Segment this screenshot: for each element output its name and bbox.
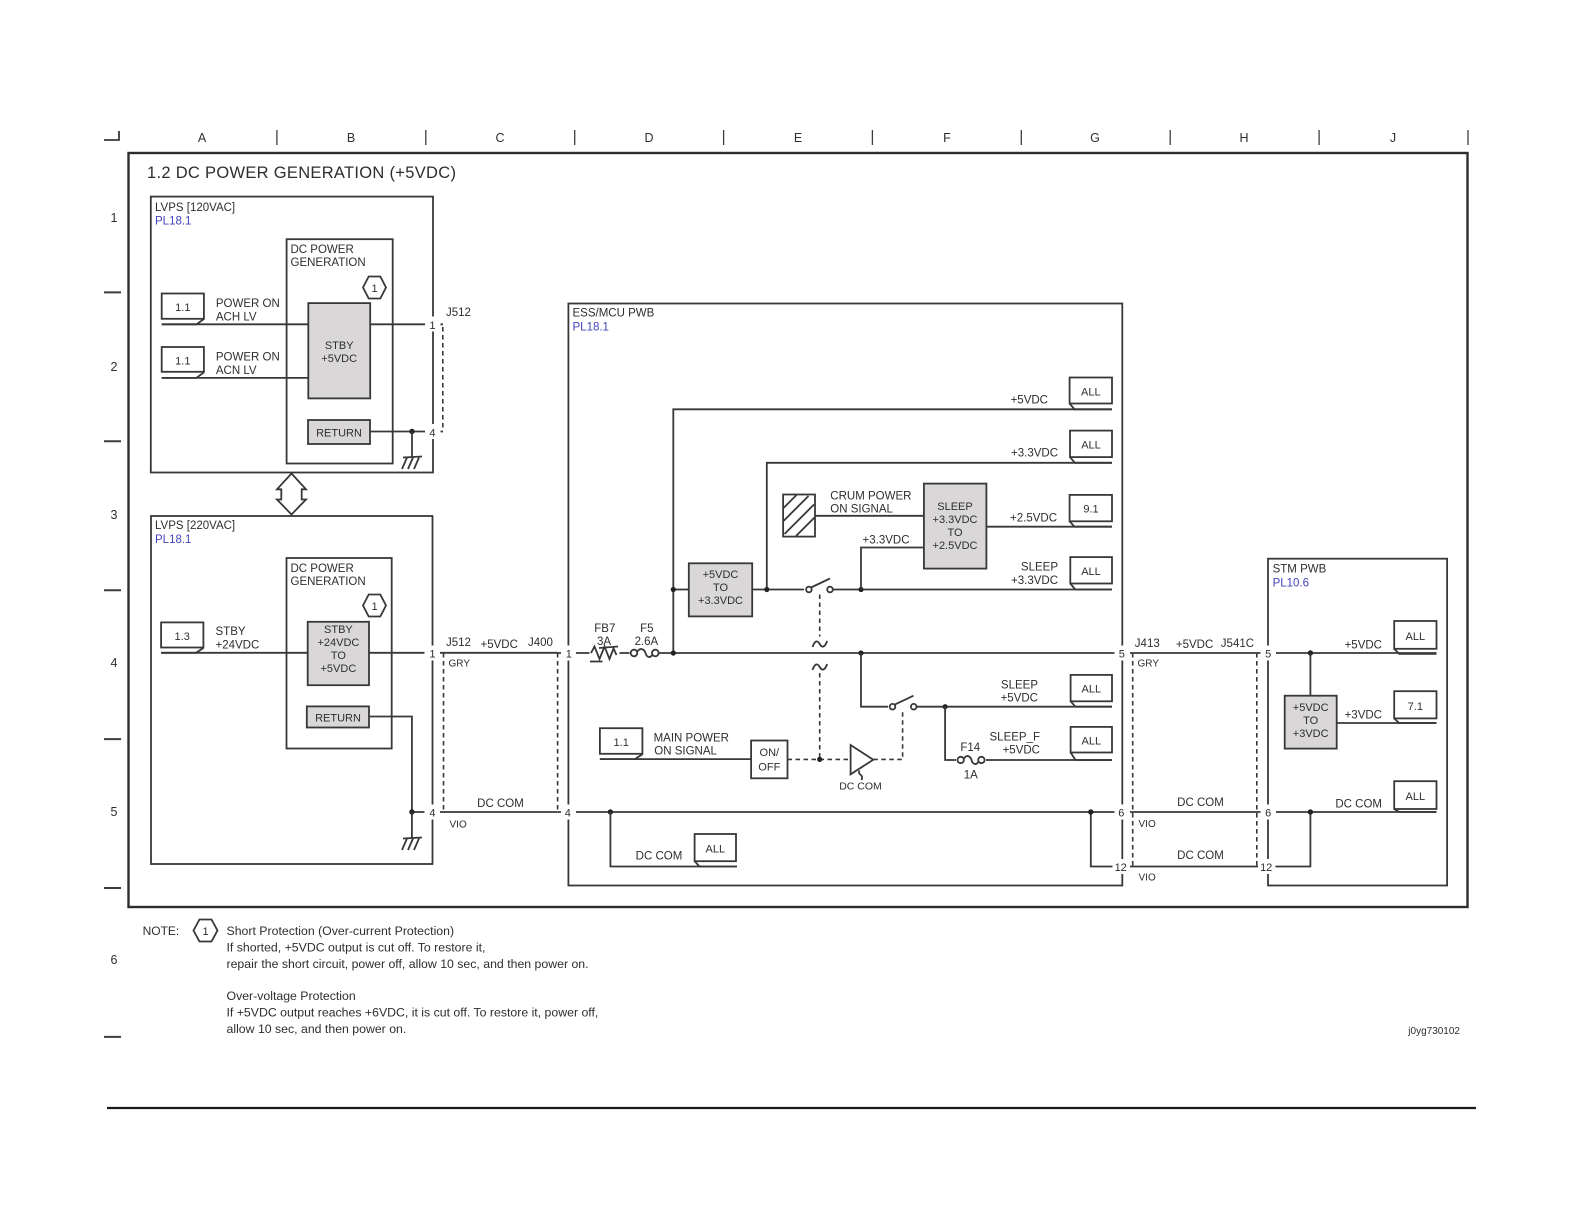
svg-text:SLEEP: SLEEP (1021, 562, 1058, 574)
wire DC COM rail (J400 pin4 to STM pin6 tag) (558, 811, 1437, 813)
svg-text:PL18.1: PL18.1 (155, 534, 191, 546)
svg-text:12: 12 (1115, 862, 1127, 874)
svg-text:ALL: ALL (1406, 791, 1426, 803)
tag ALL (+3.3VDC) (1070, 431, 1112, 463)
junction node (sleep3.3/feed) (858, 587, 863, 592)
svg-text:+5VDC: +5VDC (1011, 395, 1048, 407)
svg-text:VIO: VIO (1139, 873, 1156, 884)
wire CRUM POWER ON SIGNAL (815, 515, 924, 517)
wire +3VDC to 7.1 tag (1337, 722, 1437, 724)
svg-text:1: 1 (429, 320, 435, 332)
junction node (+5 rail tap) (671, 587, 676, 592)
svg-text:6: 6 (1265, 808, 1271, 820)
label MAIN POWER ON SIGNAL (654, 733, 729, 758)
svg-text:ALL: ALL (706, 844, 726, 856)
svg-text:DC COM: DC COM (1177, 797, 1224, 809)
label FB7 3A (594, 623, 615, 648)
svg-text:1.3: 1.3 (175, 631, 190, 643)
svg-text:VIO: VIO (450, 820, 467, 831)
svg-text:6: 6 (1118, 808, 1124, 820)
CRUM hatched box (783, 495, 815, 537)
junction node (DC COM rail / ALL tag) (608, 809, 613, 814)
svg-text:ALL: ALL (1082, 684, 1102, 696)
note hexagon 1 (220VAC) (363, 595, 386, 617)
svg-text:DC COM: DC COM (839, 781, 882, 793)
svg-text:G: G (1090, 131, 1100, 145)
pin 4 gap+label (LVPS220 edge) (425, 805, 441, 820)
junction node (+5 rail to FB7 branch) (671, 650, 676, 655)
junction node at return/ground (409, 429, 414, 434)
wire +5VDC output to J512 pin 1 (220) (369, 652, 444, 654)
net label SLEEP_F +5VDC (990, 732, 1041, 757)
LVPS [220VAC] board box (151, 516, 433, 864)
svg-text:4: 4 (429, 808, 435, 820)
svg-text:TO: TO (331, 650, 347, 662)
svg-text:DC POWER: DC POWER (291, 244, 354, 256)
svg-text:4: 4 (565, 808, 571, 820)
svg-text:DC COM: DC COM (477, 798, 524, 810)
junction node (rail to sleep5 branch) (858, 650, 863, 655)
svg-text:1: 1 (566, 649, 572, 661)
switch SW2 (sleep 5V) (888, 696, 917, 713)
svg-text:D: D (644, 131, 653, 145)
svg-text:GENERATION: GENERATION (291, 576, 366, 588)
harness J413-J541C dashed cable box (1133, 653, 1257, 867)
svg-text:GENERATION: GENERATION (291, 257, 366, 269)
converter +5VDC TO +3.3VDC box (689, 563, 752, 616)
drawing frame border (129, 153, 1468, 907)
note hexagon 1 (legend) (194, 920, 218, 942)
svg-text:5: 5 (1265, 649, 1271, 661)
svg-text:LVPS [220VAC]: LVPS [220VAC] (155, 520, 235, 532)
dashed control line SW1 with crossing tildes (813, 595, 828, 760)
ON/OFF switch box (751, 741, 787, 779)
wire RETURN to J512 pin 4 (370, 431, 443, 433)
label POWER ON ACH LV (216, 298, 280, 323)
svg-text:SLEEP: SLEEP (937, 501, 972, 513)
svg-text:6: 6 (111, 953, 118, 967)
tag ALL (+5VDC) (1070, 378, 1112, 410)
STBY +5VDC converter box (308, 303, 370, 398)
svg-text:allow 10 sec, and then power o: allow 10 sec, and then power on. (227, 1022, 407, 1036)
svg-text:ON SIGNAL: ON SIGNAL (654, 746, 717, 758)
wire ACN LV into STBY (162, 377, 309, 379)
svg-text:ON/: ON/ (760, 747, 781, 759)
wire ACH LV into STBY (162, 323, 309, 325)
ruler corner mark (104, 131, 119, 140)
svg-text:+3.3VDC: +3.3VDC (863, 535, 910, 547)
svg-text:1.1: 1.1 (614, 737, 629, 749)
svg-text:+3.3VDC: +3.3VDC (1011, 575, 1058, 587)
junction node (STM DC COM) (1308, 809, 1313, 814)
label F5 2.6A (635, 623, 659, 648)
ruler row numbers (111, 211, 118, 967)
svg-text:TO: TO (713, 582, 729, 594)
svg-text:E: E (794, 131, 802, 145)
wire +5VDC through harness C (444, 652, 558, 654)
svg-text:1.1: 1.1 (175, 356, 190, 368)
svg-text:2.6A: 2.6A (635, 636, 659, 648)
svg-text:If +5VDC output reaches +6VDC,: If +5VDC output reaches +6VDC, it is cut… (227, 1006, 599, 1020)
svg-text:9.1: 9.1 (1083, 504, 1098, 516)
svg-text:Over-voltage Protection: Over-voltage Protection (227, 989, 356, 1003)
connector J512 (120VAC) dashed (442, 327, 444, 429)
svg-text:NOTE:: NOTE: (143, 924, 180, 938)
wire +5VDC rail (J400 pin1 to J541C, into STM) (558, 652, 1437, 654)
svg-text:POWER ON: POWER ON (216, 352, 280, 364)
note hexagon 1 (120VAC) (363, 277, 386, 299)
tag 1.3 STBY +24VDC (161, 622, 203, 652)
ruler column separators (277, 130, 1468, 145)
svg-text:J541C: J541C (1221, 638, 1254, 650)
wire MAIN POWER ON SIGNAL to ON/OFF (600, 758, 751, 760)
junction node (+3.3 always-on tap) (764, 587, 769, 592)
svg-text:12: 12 (1260, 862, 1272, 874)
svg-text:3A: 3A (597, 636, 611, 648)
svg-text:ALL: ALL (1081, 440, 1101, 452)
svg-text:FB7: FB7 (594, 623, 615, 635)
tag 1.1 MAIN POWER ON SIGNAL (600, 728, 643, 759)
STM PWB board box (1268, 559, 1447, 886)
wire STBY +24VDC into converter (161, 652, 308, 654)
svg-text:ON SIGNAL: ON SIGNAL (830, 504, 893, 516)
svg-text:1: 1 (111, 211, 118, 225)
svg-text:F5: F5 (640, 623, 653, 635)
svg-text:MAIN POWER: MAIN POWER (654, 733, 729, 745)
svg-text:OFF: OFF (758, 762, 780, 774)
svg-text:4: 4 (111, 656, 118, 670)
svg-text:+3.3VDC: +3.3VDC (933, 514, 978, 526)
svg-text:If shorted, +5VDC output is cu: If shorted, +5VDC output is cut off. To … (227, 941, 486, 955)
svg-text:DC COM: DC COM (636, 851, 683, 863)
svg-text:5: 5 (1119, 649, 1125, 661)
LVPS [120VAC] board box (151, 197, 433, 473)
svg-text:+5VDC: +5VDC (1003, 745, 1040, 757)
wire STBY +5VDC output to J512 pin 1 (370, 323, 443, 325)
DC POWER GENERATION box (220VAC) (287, 558, 392, 749)
svg-text:+3.3VDC: +3.3VDC (698, 595, 743, 607)
ground (120VAC return) (402, 432, 422, 470)
svg-text:+3VDC: +3VDC (1345, 710, 1382, 722)
svg-text:SLEEP_F: SLEEP_F (990, 732, 1041, 744)
svg-text:ACN LV: ACN LV (216, 365, 257, 377)
wire +2.5VDC to 9.1 tag (986, 526, 1112, 528)
svg-text:STM PWB: STM PWB (1273, 564, 1327, 576)
pin 1 gap+label (LVPS220 edge) (425, 646, 441, 661)
svg-text:1.1: 1.1 (175, 302, 190, 314)
svg-text:Short Protection (Over-current: Short Protection (Over-current Protectio… (227, 924, 455, 938)
svg-text:STBY: STBY (325, 340, 354, 352)
svg-text:+5VDC: +5VDC (1176, 639, 1213, 651)
tag ALL (SLEEP +5VDC) (1071, 675, 1112, 707)
DC POWER GENERATION box (120VAC) (287, 239, 393, 463)
svg-text:1: 1 (371, 283, 377, 295)
tag 7.1 (+3VDC) (1394, 691, 1436, 723)
footer separator line (107, 1107, 1476, 1109)
dashed control line buffer to SW2 (873, 712, 902, 759)
wire +5VDC into +3VDC converter (1309, 653, 1311, 696)
svg-text:ALL: ALL (1081, 566, 1101, 578)
wire +3.3VDC feed to SLEEP converter (861, 548, 924, 590)
svg-text:J400: J400 (528, 637, 553, 649)
svg-text:+5VDC: +5VDC (703, 569, 739, 581)
svg-text:+24VDC: +24VDC (216, 640, 260, 652)
svg-text:+5VDC: +5VDC (321, 663, 357, 675)
switch SW1 (sleep 3.3) (804, 579, 833, 597)
junction node at return/ground (220) (409, 809, 414, 814)
+3.3VDC branch wire to ALL tag (767, 463, 1112, 590)
svg-text:5: 5 (111, 805, 118, 819)
wire sleep +5VDC branch with switch SW2 (861, 653, 1112, 707)
svg-text:+5VDC: +5VDC (1293, 702, 1329, 714)
svg-text:+24VDC: +24VDC (317, 637, 359, 649)
svg-text:1: 1 (202, 926, 208, 938)
svg-text:J512: J512 (446, 637, 471, 649)
svg-text:3: 3 (111, 508, 118, 522)
svg-text:1A: 1A (964, 770, 978, 782)
svg-text:B: B (347, 131, 355, 145)
tag ALL (SLEEP_F +5VDC) (1071, 727, 1112, 760)
svg-text:H: H (1239, 131, 1248, 145)
wire SLEEP_F branch through F14 (945, 707, 1112, 760)
svg-text:+5VDC: +5VDC (1001, 693, 1038, 705)
svg-text:ALL: ALL (1081, 387, 1101, 399)
tag ALL (STM DC COM) (1394, 781, 1436, 812)
net label SLEEP +3.3VDC (1011, 562, 1058, 588)
svg-text:VIO: VIO (1139, 819, 1156, 830)
svg-text:F14: F14 (960, 742, 980, 754)
ESS/MCU PWB board box (568, 304, 1122, 886)
junction node (STM +5VDC) (1308, 650, 1313, 655)
svg-text:+2.5VDC: +2.5VDC (933, 540, 978, 552)
coupler double arrow between LVPS boxes (277, 474, 306, 515)
svg-text:TO: TO (1303, 715, 1319, 727)
svg-text:PL18.1: PL18.1 (573, 322, 609, 334)
tag ALL (DC COM ESS) (695, 834, 737, 867)
svg-text:RETURN: RETURN (316, 428, 362, 440)
svg-text:J: J (1390, 131, 1396, 145)
wire DC COM to ALL tag (ESS) (610, 812, 737, 867)
svg-text:TO: TO (947, 527, 963, 539)
buffer gate U1 (839, 745, 882, 793)
pin 5 gap+label (STM left edge) (1261, 646, 1277, 661)
svg-text:STBY: STBY (216, 626, 246, 638)
svg-text:+3VDC: +3VDC (1293, 728, 1329, 740)
svg-text:DC COM: DC COM (1335, 799, 1382, 811)
tag ALL (SLEEP +3.3VDC) (1070, 557, 1112, 589)
svg-text:GRY: GRY (449, 659, 471, 670)
svg-text:POWER ON: POWER ON (216, 298, 280, 310)
net label SLEEP +5VDC (1001, 680, 1039, 705)
svg-text:GRY: GRY (1138, 659, 1160, 670)
svg-text:DC COM: DC COM (1177, 850, 1224, 862)
svg-text:J413: J413 (1135, 638, 1160, 650)
svg-text:RETURN: RETURN (315, 713, 361, 725)
svg-text:2: 2 (111, 360, 118, 374)
svg-text:A: A (198, 131, 207, 145)
tag 1.1 POWER ON ACN LV (162, 347, 204, 378)
svg-text:ALL: ALL (1406, 631, 1426, 643)
junction node (DC COM to pin12) (1088, 809, 1093, 814)
FB7 ferrite bead symbol (590, 644, 620, 662)
wire DC COM through harness C (444, 811, 558, 813)
svg-text:+5VDC: +5VDC (481, 639, 518, 651)
fuse F5 (630, 647, 660, 660)
svg-text:F: F (943, 131, 951, 145)
svg-text:7.1: 7.1 (1408, 701, 1423, 713)
converter SLEEP +3.3VDC TO +2.5VDC box (924, 484, 987, 569)
ruler row tick marks (104, 292, 121, 1037)
pin 4 gap+label (ESS left edge) (561, 805, 576, 820)
svg-text:+2.5VDC: +2.5VDC (1010, 513, 1057, 525)
pin 1 gap+label (LVPS120 edge) (425, 317, 441, 333)
harness J512-J400 dashed cable box (444, 653, 558, 812)
svg-text:+5VDC: +5VDC (1345, 640, 1382, 652)
pin 5 gap+label (ESS right edge) (1115, 646, 1131, 661)
junction node (control line) (817, 757, 822, 762)
ruler column letters (198, 131, 1396, 145)
svg-text:1: 1 (371, 601, 377, 613)
pin 4 gap+label (LVPS120 edge) (425, 424, 441, 440)
svg-text:DC POWER: DC POWER (291, 563, 354, 575)
pin 12 gap+label (STM left edge) (1258, 859, 1276, 874)
label F14 1A (960, 742, 980, 782)
svg-text:C: C (495, 131, 504, 145)
label CRUM POWER ON SIGNAL (830, 491, 911, 516)
svg-text:ACH LV: ACH LV (216, 311, 257, 323)
svg-text:4: 4 (429, 428, 435, 440)
svg-text:PL18.1: PL18.1 (155, 216, 191, 228)
svg-text:ESS/MCU PWB: ESS/MCU PWB (573, 308, 655, 320)
svg-text:1: 1 (429, 649, 435, 661)
fuse F14 (956, 754, 986, 767)
wire RETURN to J512 pin 4 (220) (369, 717, 444, 813)
svg-text:STBY: STBY (324, 624, 353, 636)
tag ALL (STM +5VDC) (1394, 621, 1436, 654)
svg-text:CRUM POWER: CRUM POWER (830, 491, 911, 503)
svg-text:LVPS [120VAC]: LVPS [120VAC] (155, 202, 235, 214)
label STBY +24VDC (216, 626, 260, 652)
svg-text:+3.3VDC: +3.3VDC (1011, 448, 1058, 460)
wire pin12 DC COM link (ESS to STM) (1091, 812, 1311, 867)
svg-text:J512: J512 (446, 307, 471, 319)
dashed control line from ON/OFF (788, 758, 850, 760)
wire into +5/+3.3 converter (673, 589, 689, 591)
svg-text:PL10.6: PL10.6 (1273, 578, 1309, 590)
junction node (sleep5/F14) (943, 704, 948, 709)
pin 1 gap+label (ESS left edge) (561, 646, 576, 661)
svg-text:1.2 DC POWER GENERATION (+5VDC: 1.2 DC POWER GENERATION (+5VDC) (147, 164, 456, 182)
svg-text:repair the short circuit, powe: repair the short circuit, power off, all… (227, 957, 589, 971)
svg-text:+5VDC: +5VDC (321, 353, 357, 365)
svg-text:j0yg730102: j0yg730102 (1407, 1026, 1460, 1037)
+5VDC branch wire to ALL tag (673, 409, 1112, 653)
wire sleep +3.3VDC line with switch to ALL tag (752, 589, 1112, 591)
ground (220VAC return) (402, 812, 422, 850)
label POWER ON ACN LV (216, 352, 280, 377)
converter +5VDC TO +3VDC box (1285, 696, 1337, 749)
STBY +24VDC TO +5VDC converter box (308, 622, 369, 685)
tag 1.1 POWER ON ACH LV (162, 294, 204, 325)
pin 6 gap+label (STM left edge) (1261, 805, 1277, 820)
svg-text:ALL: ALL (1082, 736, 1102, 748)
RETURN box (220VAC) (307, 706, 369, 727)
pin 12 gap+label (ESS right edge) (1113, 859, 1131, 874)
svg-text:SLEEP: SLEEP (1001, 680, 1038, 692)
note text block (227, 924, 599, 1036)
tag 9.1 (+2.5VDC) (1070, 495, 1112, 527)
pin 6 gap+label (ESS right edge) (1115, 805, 1131, 820)
RETURN box (120VAC) (308, 420, 370, 444)
